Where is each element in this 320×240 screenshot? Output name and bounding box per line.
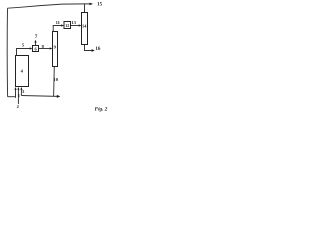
svg-text:15: 15 — [97, 2, 103, 7]
wire: stream 15 riser and line from column 14 top — [85, 4, 90, 13]
wire: stream 13 line to column 14 — [71, 25, 79, 27]
svg-text:13: 13 — [71, 20, 76, 25]
arrowhead stream 15 outlet — [90, 3, 94, 6]
wire: stream 5 riser from reactor 4 top — [17, 49, 30, 56]
wire: stream 7 line up from box 6 — [35, 42, 37, 45]
svg-text:11: 11 — [56, 20, 61, 25]
svg-text:10: 10 — [53, 77, 58, 82]
arrowhead stream 8 into column 9 — [50, 47, 53, 49]
wire: bottom horizontal line (stream 3 / bottoms) — [21, 95, 57, 98]
separator box 6 — [33, 46, 39, 52]
wire: bottom-left segment to stream 1 — [8, 96, 16, 98]
wire: stream 11 riser and line to box 12 — [53, 26, 61, 32]
reactor vessel 4 — [16, 56, 29, 87]
svg-text:6: 6 — [35, 46, 38, 51]
svg-text:Fig. 2: Fig. 2 — [95, 106, 108, 112]
svg-text:2: 2 — [17, 104, 20, 109]
svg-text:1: 1 — [18, 93, 21, 98]
arrowhead stream 11 into box 12 — [61, 24, 64, 26]
arrowhead stream 2 into reactor 4 — [17, 87, 19, 90]
wire: stream 16 line from column 14 bottom — [85, 45, 92, 51]
svg-text:16: 16 — [95, 47, 101, 52]
svg-text:12: 12 — [65, 24, 69, 28]
arrowhead stream 16 outlet — [92, 49, 95, 52]
svg-text:9: 9 — [54, 44, 57, 49]
arrowhead stream 3 into reactor 4 — [20, 87, 22, 90]
column 14 — [82, 13, 88, 45]
pump box 12 — [64, 22, 71, 29]
arrowhead stream 13 into column 14 — [79, 24, 82, 26]
wire: stream 8 line to column 9 — [39, 48, 50, 50]
wire: stream 3 riser — [20, 89, 22, 96]
svg-text:7: 7 — [35, 35, 38, 40]
svg-text:5: 5 — [22, 43, 25, 48]
wire: stream 2 feed line — [17, 89, 19, 104]
arrowhead stream 1 into reactor 4 — [14, 87, 16, 90]
svg-text:14: 14 — [82, 24, 87, 29]
column 9 — [53, 32, 58, 67]
svg-text:3: 3 — [22, 89, 25, 94]
arrowhead stream 7 up — [34, 40, 36, 43]
arrowhead bottoms outlet right — [57, 95, 61, 98]
wire: recycle top line from column 14 top to left side — [8, 4, 85, 8]
wire: stream 1 riser into reactor 4 — [15, 89, 17, 98]
svg-text:4: 4 — [21, 68, 24, 73]
wire: left vertical recycle line — [6, 8, 8, 97]
wire: stream 10 downcomer from column 9 — [53, 67, 56, 97]
arrowhead stream 5 into box 6 — [30, 47, 33, 49]
